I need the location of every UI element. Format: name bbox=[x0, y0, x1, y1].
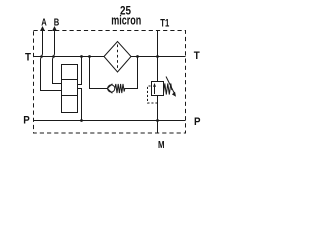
svg-text:T: T bbox=[25, 52, 31, 64]
svg-text:micron: micron bbox=[111, 13, 141, 28]
svg-text:T: T bbox=[194, 50, 200, 62]
svg-text:T1: T1 bbox=[160, 17, 169, 29]
svg-text:A: A bbox=[41, 18, 47, 29]
svg-text:M: M bbox=[158, 140, 165, 151]
svg-text:B: B bbox=[54, 18, 60, 29]
svg-text:P: P bbox=[194, 116, 201, 128]
svg-text:P: P bbox=[23, 115, 30, 127]
